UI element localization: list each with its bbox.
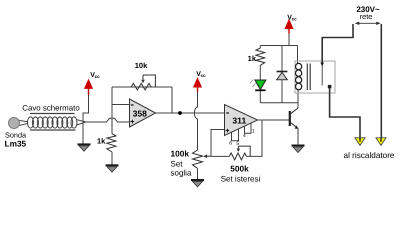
LED D1 green [250,80,266,91]
flyback diode D2 [277,46,288,103]
Vcc symbol V1 (LM35 supply) [85,72,100,95]
dimension arrow [355,22,381,25]
Vcc symbol V2 (threshold pot) [194,71,206,92]
relay switch blade [321,63,323,86]
resistor 1k (gain) [107,134,116,152]
ground G2 (1k) [106,165,119,172]
wire feedback top [112,86,172,88]
wire wiper to comparator + input [211,130,225,157]
wire shield right vertical [83,95,89,144]
potentiometer 500k Set isteresi [229,146,250,160]
relay contact pad [328,85,332,88]
pins 1-4 strap [245,123,252,133]
svg-text:1k: 1k [248,54,257,63]
wire Vcc to 100k with hop over output wire [194,91,197,150]
svg-text:cc: cc [95,74,101,79]
svg-text:500k: 500k [230,163,249,173]
transistor Q1 [290,108,299,129]
wire stub to - input [112,104,130,106]
wire probe signal to op-amp + (with hop over x=112) [85,118,129,122]
wire 500k to output junction [246,120,262,156]
wire switched output [330,88,360,138]
svg-text:1k: 1k [97,137,106,146]
svg-text:100k: 100k [171,149,190,159]
wire inverting node vertical [111,87,113,134]
svg-text:Set isteresi: Set isteresi [221,174,261,183]
svg-text:al riscaldatore: al riscaldatore [344,151,395,160]
op-amp U1 358 [130,99,156,127]
wire bottom rail (collector node) [260,102,298,104]
ground G4 (emitter) [292,146,305,153]
output arrow left (to heater) [355,138,365,146]
svg-text:4: 4 [243,133,246,139]
ground G3 (100k) [191,180,204,187]
probe LM35 sensor body [9,118,20,129]
cable taper right [77,120,86,125]
potentiometer 100k Set soglia [193,150,203,168]
svg-text:10k: 10k [135,61,148,70]
relay core lines [307,64,310,91]
wire feedback right vertical [171,87,173,113]
svg-text:358: 358 [133,109,148,119]
svg-text:cc: cc [292,17,298,22]
shielded cable coil [28,117,78,128]
resistor 1k (LED) [256,48,265,65]
relay K1 box [295,61,335,93]
shield top line [30,113,75,115]
svg-text:1: 1 [252,128,255,134]
wire mains right [380,24,382,138]
relay coil [296,63,302,89]
wire collector up [297,90,299,108]
node dot output [178,111,182,115]
wiper arrow 100k [207,155,212,157]
pins 5-6 strap [232,129,239,141]
probe taper to cable [20,121,29,126]
svg-text:5: 5 [236,141,239,147]
wire 358 output [156,112,225,114]
wire emitter down [297,129,299,146]
svg-text:soglia: soglia [171,169,192,178]
svg-text:311: 311 [232,116,246,126]
wire rail to coil top [297,46,299,64]
wire 311 output to transistor base [258,119,290,121]
svg-text:cc: cc [201,73,207,78]
output arrow right (to heater) [376,138,386,146]
wire mains left [322,24,353,63]
wire hysteresis run [211,155,229,157]
ground G1 (shield) [78,144,91,151]
svg-text:6: 6 [229,140,232,146]
resistor 10k (trimmer) [131,75,155,90]
comparator U2 311 [225,105,258,136]
svg-text:Set: Set [171,160,184,169]
Vcc symbol V3 (relay supply) [285,14,297,45]
svg-text:Cavo schermato: Cavo schermato [22,104,80,113]
wire top rail (Vcc node) [260,45,297,47]
shield bottom line [30,129,76,131]
svg-text:rete: rete [360,12,373,21]
svg-text:Lm35: Lm35 [5,139,27,149]
